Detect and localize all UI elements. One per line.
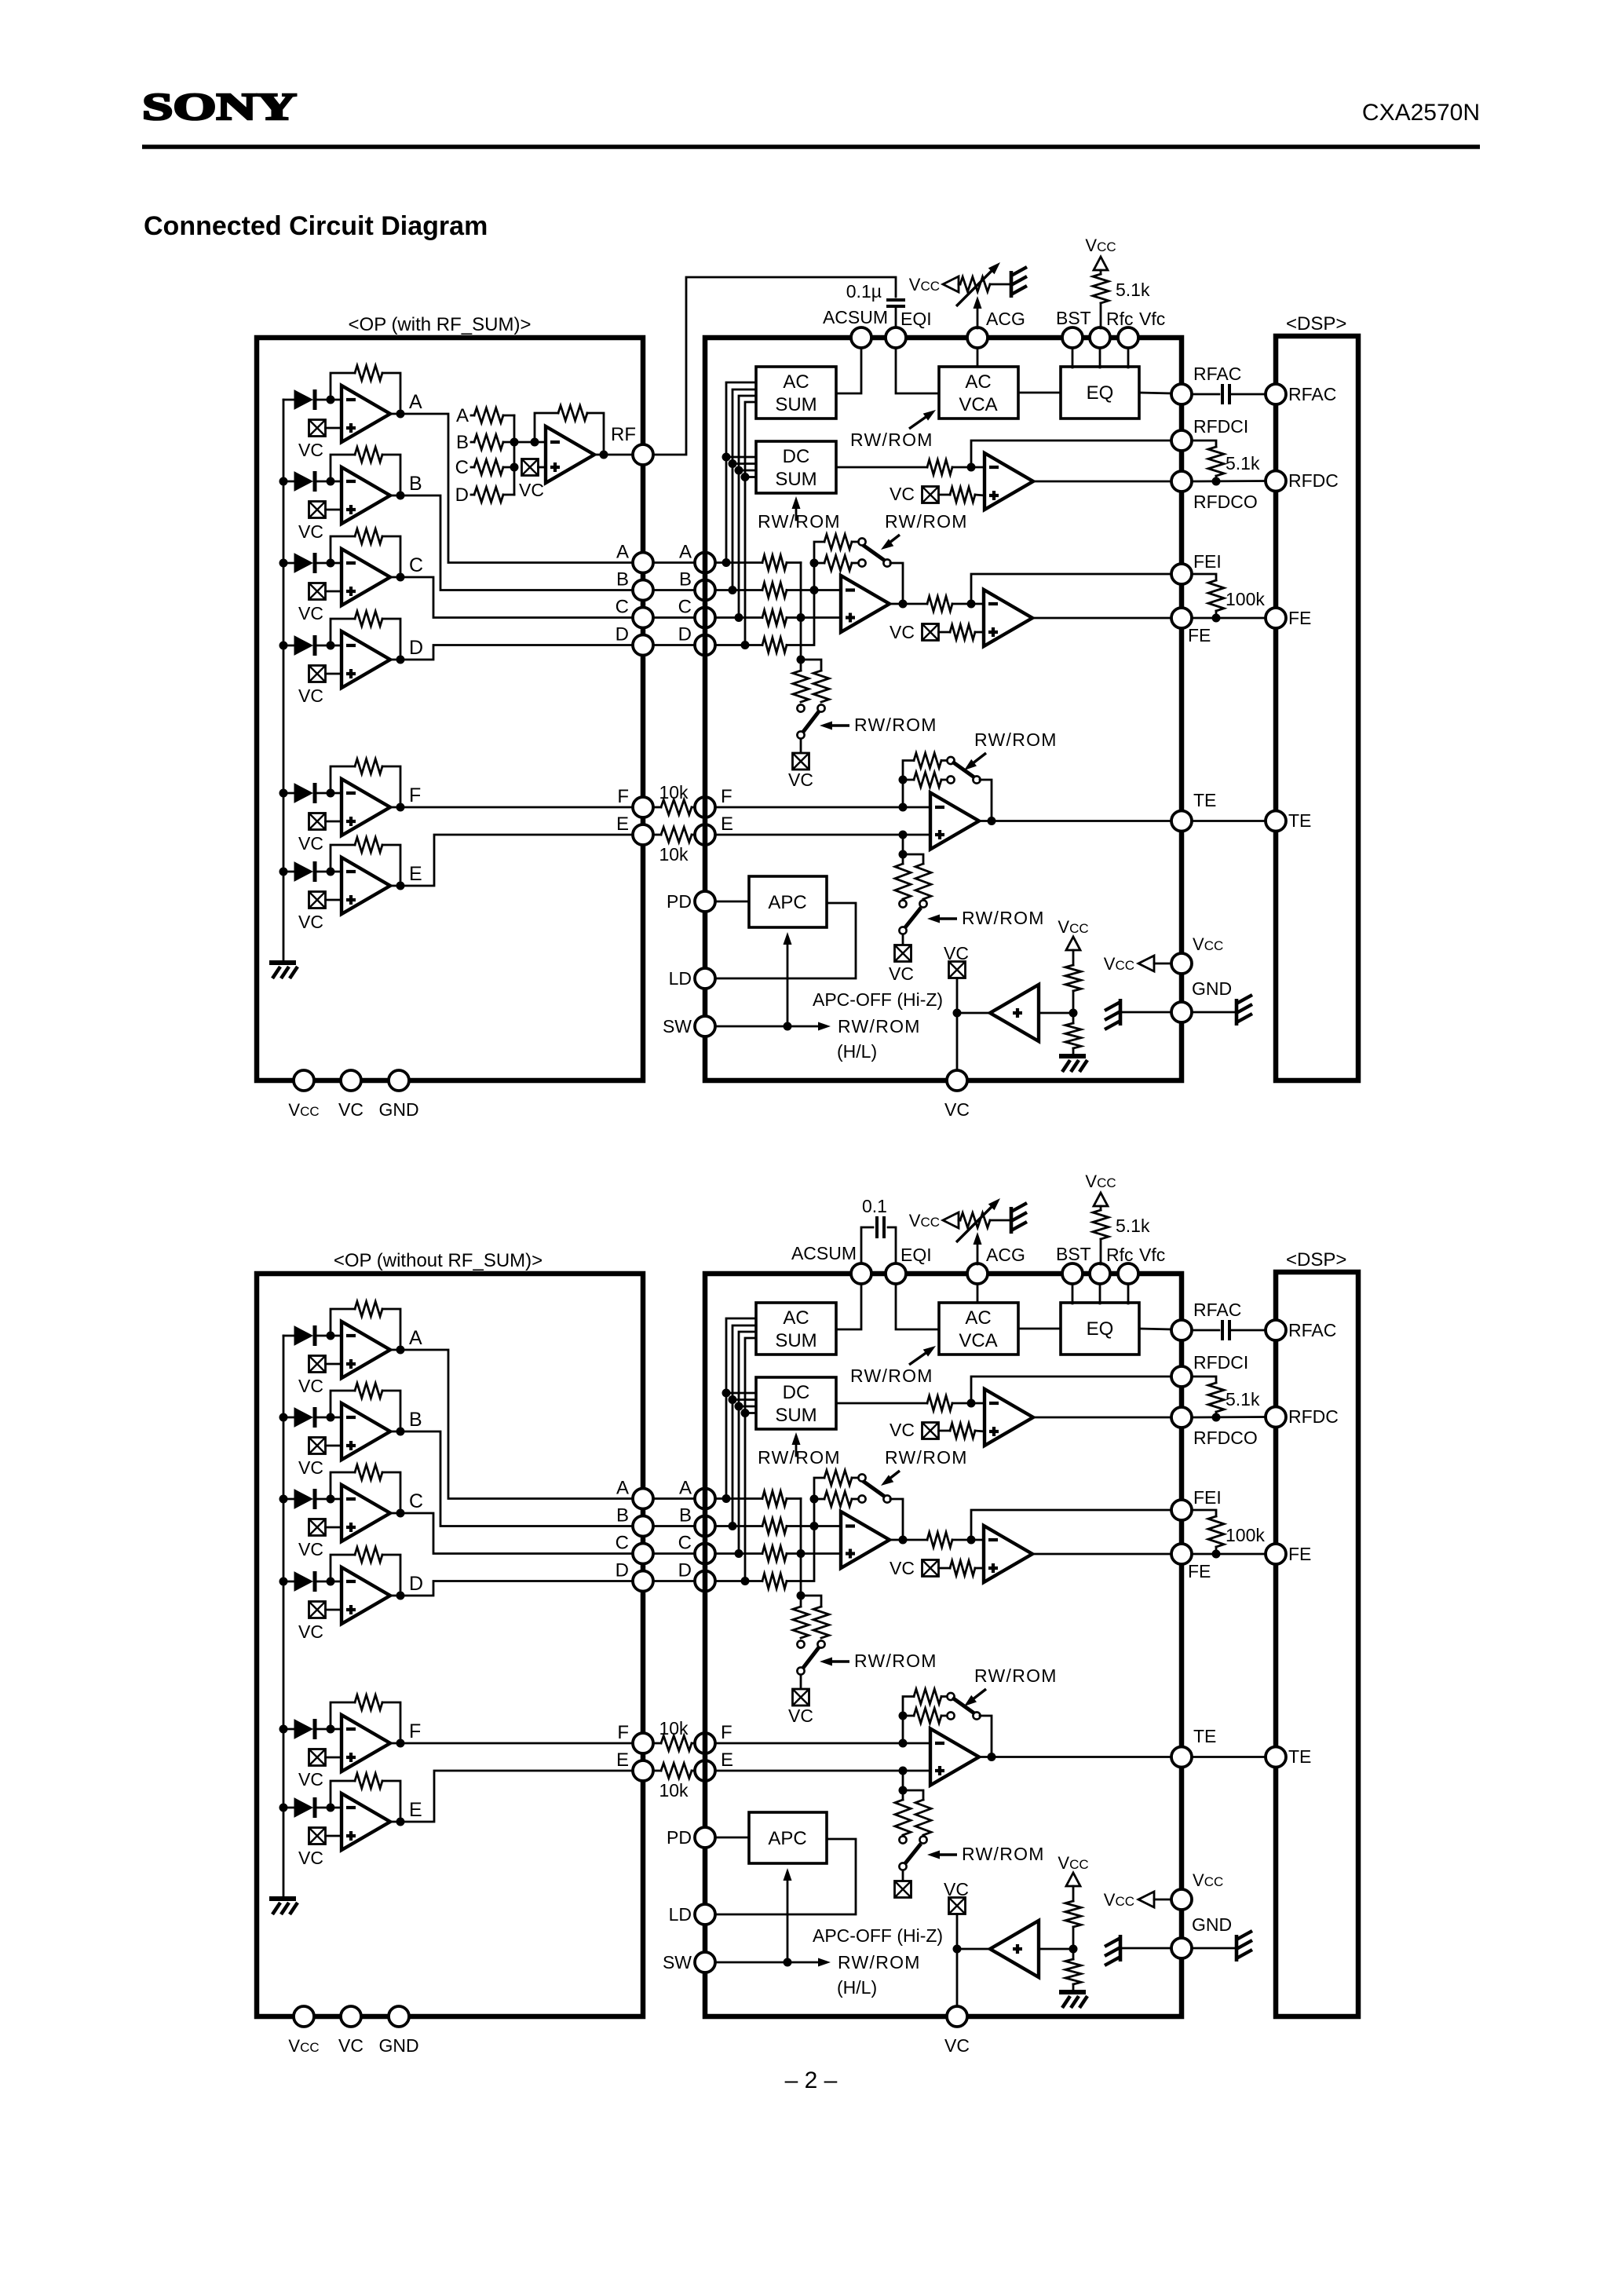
svg-text:RW/ROM: RW/ROM	[758, 511, 841, 532]
wire VC to UC plus input	[326, 590, 342, 593]
op-amp FE first stage	[841, 576, 890, 632]
UB plus input mark	[346, 1444, 356, 1447]
switch lever (FE bias RW/ROM)	[803, 1647, 819, 1668]
pin EQI (main block)	[886, 327, 906, 348]
pin FE (DSP)	[1266, 608, 1286, 628]
wire RF sum input C	[471, 466, 474, 469]
chassis ground (potentiometer)	[1010, 271, 1014, 298]
wire PDD cathode to op-amp UD inverting input	[315, 645, 342, 647]
photodiode PDA	[294, 390, 312, 409]
svg-text:C: C	[616, 597, 629, 618]
wire PDD anode	[283, 1581, 294, 1583]
wire ACSUM to AC SUM output	[836, 349, 861, 393]
svg-text:5.1k: 5.1k	[1226, 1389, 1260, 1409]
svg-text:Vfc: Vfc	[1139, 1245, 1165, 1265]
node FE plus input	[797, 1549, 806, 1558]
node UC inverting input	[327, 559, 335, 568]
op-amp TE	[930, 793, 979, 850]
svg-text:DC: DC	[783, 446, 810, 467]
block AC VCA	[939, 1303, 1018, 1355]
resistor TE feedback (ROM)	[914, 1689, 941, 1704]
wire UA feedback loop	[331, 373, 355, 400]
ground (OP photodiode bus)	[269, 960, 296, 965]
pin PD (main block)	[695, 891, 715, 912]
svg-text:– 2 –: – 2 –	[785, 2067, 838, 2093]
wire PDF cathode to op-amp UF inverting input	[315, 792, 342, 795]
OP block box (diagram 1)	[257, 338, 643, 1080]
wire UE feedback loop	[331, 1781, 355, 1808]
pin FE (main block)	[1171, 1544, 1192, 1564]
wire OP pin F to 10k resistor	[653, 1742, 661, 1745]
op-amp UC	[342, 1485, 390, 1541]
resistor RF sum C	[474, 460, 503, 475]
UA minus input mark	[346, 1334, 356, 1337]
node RF op-amp inverting input	[531, 438, 539, 447]
wire B pin to summing bundle	[732, 1325, 756, 1526]
node UD output	[396, 656, 405, 664]
op-amp RFDC	[985, 453, 1033, 510]
resistor FE bias (ROM)	[813, 671, 829, 702]
wire TE output to TE pin	[979, 820, 1171, 822]
svg-text:5.1k: 5.1k	[1116, 280, 1150, 300]
pin TE (DSP)	[1266, 811, 1286, 832]
svg-text:RW/ROM: RW/ROM	[962, 908, 1045, 928]
arrow RW/ROM to TE bias switch	[933, 1853, 957, 1855]
svg-text:RW/ROM: RW/ROM	[885, 511, 968, 532]
pin EQI (main block)	[886, 1263, 906, 1284]
node comparator output	[953, 1009, 962, 1018]
resistor FE bias (ROM)	[813, 1607, 829, 1638]
svg-text:C: C	[616, 1533, 629, 1554]
node UA output	[396, 1346, 405, 1355]
svg-text:ACG: ACG	[986, 309, 1025, 329]
node FE row	[1212, 1550, 1221, 1559]
chassis ground (GND left)	[1119, 1935, 1123, 1961]
svg-text:10k: 10k	[659, 1718, 689, 1738]
wire PDB cathode to op-amp UB inverting input	[315, 481, 342, 483]
svg-text:RFAC: RFAC	[1288, 384, 1336, 404]
wire RF summing node bus	[513, 415, 516, 495]
resistor 10k (F)	[661, 800, 692, 815]
photodiode PDF	[294, 1720, 312, 1738]
svg-text:TE: TE	[1193, 790, 1216, 810]
op-amp UE	[342, 1793, 390, 1850]
wire PDB cathode to op-amp UB inverting input	[315, 1417, 342, 1419]
node UE output	[396, 882, 405, 890]
pin RFAC (DSP)	[1266, 384, 1286, 404]
photodiode PDD	[294, 1572, 312, 1591]
RFDC op-amp minus mark	[989, 466, 999, 469]
wire RF sum B to summing node	[503, 441, 514, 444]
wire TE feedback switch to output	[980, 780, 992, 821]
switch lever (TE feedback RW/ROM)	[952, 762, 974, 777]
wire comparator input to divider	[1039, 1948, 1073, 1951]
svg-text:SW: SW	[663, 1952, 692, 1972]
wire C output to OP pin C	[390, 1513, 633, 1554]
comparator (laser monitor)	[990, 985, 1039, 1041]
pin RFAC (main block)	[1171, 1320, 1192, 1340]
svg-text:FE: FE	[1288, 1544, 1311, 1564]
UA minus input mark	[346, 398, 356, 401]
svg-text:FEI: FEI	[1193, 1487, 1222, 1508]
photodiode PDC	[294, 1490, 312, 1508]
wire RF sum input D	[471, 494, 474, 496]
node UD inverting input	[327, 642, 335, 650]
node FE bias split	[797, 656, 806, 664]
switch lever (TE bias RW/ROM)	[905, 1844, 921, 1863]
wire 5.1k to RFDC row	[1215, 476, 1218, 481]
node bundle B at pin row	[729, 586, 737, 594]
wire resistor to FE2 plus input	[975, 631, 984, 634]
wire FEI feedback to FEI pin	[971, 1510, 1171, 1540]
svg-text:RF: RF	[611, 424, 636, 445]
wire B row to minus node	[715, 1525, 762, 1527]
wire 10k to E pin	[692, 834, 695, 836]
pin ACSUM (main block)	[851, 327, 871, 348]
svg-text:RW/ROM: RW/ROM	[850, 1366, 933, 1386]
node TE plus input	[899, 1767, 908, 1775]
wire DC SUM output to resistor	[836, 466, 927, 469]
VC source box (UD non-inverting input)	[309, 666, 326, 682]
svg-text:LD: LD	[669, 968, 692, 989]
wire EQ to RFAC pin	[1139, 1329, 1171, 1329]
wire PDF anode	[283, 1728, 294, 1731]
block AC SUM	[756, 367, 836, 419]
svg-text:RW/ROM: RW/ROM	[838, 1952, 921, 1972]
wire GND right to chassis ground	[1192, 1947, 1237, 1950]
svg-text:RW/ROM: RW/ROM	[854, 1651, 937, 1671]
node bundle D DC branch	[741, 1409, 750, 1417]
wire PDE anode	[283, 1807, 294, 1809]
node UC output	[396, 1509, 405, 1518]
VC source box (UE non-inverting input)	[309, 1828, 326, 1844]
wire APC to LD pin	[715, 1839, 856, 1914]
pin E (OP block)	[633, 1760, 653, 1781]
wire bundle D to DC SUM	[745, 476, 756, 478]
wire RFDCI to 5.1k	[1192, 441, 1216, 447]
wire ACG to AC VCA control	[977, 349, 979, 367]
wire GND left to chassis ground	[1120, 1947, 1171, 1950]
pin TE (main block)	[1171, 1747, 1192, 1768]
node TE output	[988, 817, 996, 825]
wire AC VCA to EQ	[1018, 1328, 1061, 1330]
node UE inverting input	[327, 868, 335, 876]
wire VC box to VC pin	[956, 1914, 959, 2007]
UB minus input mark	[346, 480, 356, 483]
resistor DC SUM output	[927, 1396, 952, 1411]
node bundle A DC branch	[722, 1389, 731, 1398]
pin ACG (main block)	[967, 327, 988, 348]
svg-text:APC: APC	[768, 1828, 806, 1849]
U-RF plus input mark	[550, 466, 560, 469]
node PDC bus junction	[279, 1495, 288, 1504]
wire OP pin B to main pin B	[653, 589, 695, 591]
node bundle D at pin row	[741, 641, 750, 649]
wire VC to UF plus input	[326, 1757, 342, 1759]
chassis ground (GND right)	[1235, 1935, 1239, 1961]
wire RW feedback resistor to contact	[941, 1715, 947, 1717]
pin FE (DSP)	[1266, 1544, 1286, 1564]
VC source box (FE bias)	[793, 1689, 809, 1706]
resistor VC to RFDC plus input	[950, 1424, 975, 1439]
wire VC to UA plus input	[326, 427, 342, 430]
resistor FE input B	[762, 583, 787, 598]
resistor VC to FE2 plus input	[950, 1561, 975, 1576]
svg-text:EQ: EQ	[1087, 382, 1114, 404]
wire OP pin E to 10k resistor	[653, 834, 661, 836]
VC source box (RFDC op-amp)	[922, 487, 939, 503]
switch lever (FE feedback RW/ROM)	[863, 1481, 885, 1497]
wire RFDC feedback to RFDCI pin	[971, 441, 1171, 467]
pin RF (OP block)	[633, 444, 653, 465]
op-amp UF	[342, 779, 390, 835]
resistor UA feedback	[355, 1302, 382, 1317]
svg-text:Vfc: Vfc	[1139, 309, 1165, 329]
node UE inverting input	[327, 1804, 335, 1812]
svg-text:VC: VC	[298, 912, 323, 932]
photodiode PDC	[294, 554, 312, 572]
svg-text:VC: VC	[944, 943, 969, 963]
switch lever (TE bias RW/ROM)	[905, 908, 921, 927]
wire VC to UB plus input	[326, 509, 342, 511]
svg-text:B: B	[679, 1505, 692, 1526]
wire resistor A to plus bus corner	[787, 561, 801, 564]
pin A (OP block)	[633, 1489, 653, 1509]
wire feedback resistor to contact	[852, 541, 858, 543]
node FE2 minus input	[967, 1536, 976, 1545]
svg-text:SW: SW	[663, 1016, 692, 1036]
svg-text:100k: 100k	[1226, 589, 1265, 609]
svg-text:A: A	[456, 405, 469, 426]
svg-text:RFDC: RFDC	[1288, 1406, 1339, 1427]
wire TE to DSP TE	[1192, 820, 1266, 822]
resistor VC to RFDC plus input	[950, 488, 975, 503]
wire RF sum A to summing node	[503, 415, 514, 417]
wire B pin to summing bundle	[732, 389, 756, 590]
wire RFAC capacitor leads	[1192, 1329, 1219, 1332]
wire divider middle	[1072, 1927, 1075, 1959]
photodiode PDA	[294, 1326, 312, 1345]
photodiode PDB	[294, 472, 312, 491]
wire BST to EQ	[1072, 1285, 1074, 1303]
resistor divider upper	[1065, 965, 1081, 991]
wire A output to OP pin A	[390, 414, 633, 563]
resistor TE bias (ROM)	[915, 1800, 931, 1835]
OP block box (diagram 2)	[257, 1274, 643, 2016]
wire resistor to plus input	[975, 1431, 985, 1431]
node UA output	[396, 410, 405, 419]
switch contact (FE feedback ROM)	[858, 538, 865, 545]
VC source box (UC non-inverting input)	[309, 583, 326, 600]
block EQ	[1061, 1303, 1139, 1355]
node UE output	[396, 1818, 405, 1826]
wire RF sum D to summing node	[503, 494, 514, 496]
node UA inverting input	[327, 1332, 335, 1340]
wire OP pin D to main pin D	[653, 1580, 695, 1582]
node RF sum B	[510, 438, 519, 447]
svg-text:E: E	[616, 813, 629, 835]
wire VC to UD plus input	[326, 673, 342, 675]
wire PDD cathode to op-amp UD inverting input	[315, 1581, 342, 1583]
wire UF feedback loop	[331, 766, 355, 793]
wire PDA anode	[283, 399, 294, 401]
TE plus mark	[935, 1769, 944, 1772]
resistor TE bias (ROM)	[915, 864, 931, 899]
pin C (main block)	[695, 1544, 715, 1564]
block APC	[749, 876, 827, 927]
wire 10k to F pin	[692, 806, 695, 809]
wire potentiometer right to chassis ground	[990, 283, 1011, 286]
svg-text:BST: BST	[1056, 308, 1091, 328]
svg-text:C: C	[409, 1490, 423, 1512]
node UB output	[396, 492, 405, 500]
arrow RW/ROM to TE bias switch	[933, 917, 957, 919]
VC source box (UC non-inverting input)	[309, 1519, 326, 1536]
switch contact (TE bias left)	[899, 1836, 906, 1843]
resistor TE bias (RW)	[895, 864, 911, 899]
resistor FE input A	[762, 1491, 787, 1506]
node RFDC op-amp inverting input	[967, 1399, 976, 1408]
wire UD feedback to output	[382, 619, 400, 660]
capacitor 0.1µ (RF to EQI)	[886, 298, 905, 302]
svg-text:SUM: SUM	[775, 1330, 816, 1351]
svg-text:F: F	[409, 1720, 421, 1742]
wire UE feedback to output	[382, 1781, 400, 1822]
resistor DC SUM output	[927, 460, 952, 475]
wire PDD anode	[283, 645, 294, 647]
wire FE to DSP FE	[1192, 1553, 1266, 1556]
node FE bias split	[797, 1592, 806, 1600]
wire C output to OP pin C	[390, 577, 633, 618]
wire UC feedback to output	[382, 1472, 400, 1513]
potentiometer ACG resistor	[960, 1213, 990, 1228]
UD minus input mark	[346, 1580, 356, 1583]
arrow RW/ROM to DC SUM	[795, 503, 798, 520]
wire OP pin A to main pin A	[653, 1497, 695, 1500]
switch contact (FE bias left)	[797, 704, 804, 711]
wire RFDC op-amp output to RFDCO pin	[1033, 1417, 1171, 1419]
svg-text:D: D	[678, 1560, 692, 1581]
svg-text:<OP (with RF_SUM)>: <OP (with RF_SUM)>	[349, 314, 532, 335]
switch contact (FE bias right)	[817, 1640, 824, 1647]
block AC VCA	[939, 367, 1018, 419]
UD minus input mark	[346, 644, 356, 647]
pin A (OP block)	[633, 553, 653, 573]
resistor FE bias (RW)	[793, 1607, 809, 1638]
switch contact (TE feedback ROM)	[947, 757, 954, 764]
wire FE1 output to interstage resistor	[890, 603, 927, 605]
wire RFDC op-amp output to RFDCO pin	[1033, 481, 1171, 483]
VC source box (UE non-inverting input)	[309, 892, 326, 909]
resistor FE input B	[762, 1519, 787, 1534]
pin A (main block)	[695, 553, 715, 573]
VC source box (UB non-inverting input)	[309, 502, 326, 518]
switch contact (FE bias left)	[797, 1640, 804, 1647]
pin RFDCI (main block)	[1171, 1366, 1192, 1387]
svg-text:GND: GND	[378, 2035, 418, 2056]
node bundle C DC branch	[735, 466, 743, 475]
resistor FE feedback (RW)	[824, 1492, 852, 1507]
svg-text:D: D	[616, 624, 629, 645]
svg-text:(H/L): (H/L)	[837, 1041, 877, 1062]
chassis ground (GND left)	[1119, 999, 1123, 1026]
svg-text:VC: VC	[298, 833, 323, 854]
svg-text:E: E	[616, 1749, 629, 1771]
FE2 plus mark	[988, 1567, 998, 1570]
wire C pin to summing bundle	[739, 396, 756, 618]
UF minus input mark	[346, 1727, 356, 1731]
svg-text:VC: VC	[298, 686, 323, 706]
VC source box (UF non-inverting input)	[309, 1749, 326, 1766]
wire SW branch to APC control	[787, 938, 789, 1026]
svg-text:ACG: ACG	[986, 1245, 1025, 1265]
svg-text:B: B	[456, 432, 469, 453]
pin Rfc (main block)	[1090, 1263, 1110, 1284]
VC source box (UA non-inverting input)	[309, 420, 326, 437]
wire PDF anode	[283, 792, 294, 795]
arrow RW/ROM to FE bias switch	[826, 1660, 849, 1662]
block EQ	[1061, 367, 1139, 419]
wire Vcc to 5.1k	[1100, 1206, 1102, 1210]
node PDE bus junction	[279, 1804, 288, 1812]
wire comparator input to divider	[1039, 1012, 1073, 1015]
node PDF bus junction	[279, 1725, 288, 1734]
svg-text:B: B	[409, 473, 422, 495]
svg-text:RFAC: RFAC	[1288, 1320, 1336, 1340]
resistor UC feedback	[355, 1465, 382, 1480]
svg-text:RFDCI: RFDCI	[1193, 416, 1248, 437]
node UA inverting input	[327, 396, 335, 404]
resistor 5.1k (Rfc pull-up)	[1093, 274, 1109, 303]
pin E (OP block)	[633, 824, 653, 845]
UB minus input mark	[346, 1416, 356, 1419]
node bundle B DC branch	[729, 1395, 737, 1404]
wire PDC anode	[283, 562, 294, 565]
FE1 plus mark	[846, 616, 855, 619]
svg-text:F: F	[721, 1722, 732, 1743]
wire bias branch left	[800, 660, 802, 671]
svg-text:E: E	[409, 1799, 422, 1821]
node UF output	[396, 1739, 405, 1748]
UA plus input mark	[346, 426, 356, 430]
pin BST (main block)	[1062, 1263, 1083, 1284]
wire FEI to 100k	[1192, 574, 1216, 580]
node TE lower feedback tap	[899, 1712, 908, 1720]
node UC inverting input	[327, 1495, 335, 1504]
wire Vcc feed to pin	[1154, 1899, 1171, 1901]
svg-text:RW/ROM: RW/ROM	[974, 729, 1058, 750]
wire ACG wiper arrow	[977, 1238, 979, 1264]
svg-text:F: F	[617, 786, 629, 807]
wire UB feedback to output	[382, 455, 400, 495]
wire D pin to summing bundle	[745, 1338, 756, 1581]
pin GND (main block)	[1171, 1938, 1192, 1958]
svg-text:VC: VC	[298, 440, 323, 460]
svg-text:VC: VC	[298, 521, 323, 542]
wire potentiometer left	[959, 283, 960, 286]
wire A pin to summing bundle	[726, 382, 756, 563]
node bundle C DC branch	[735, 1402, 743, 1411]
UE plus input mark	[346, 898, 356, 901]
node bundle C at pin row	[735, 613, 743, 622]
svg-text:RFDCO: RFDCO	[1193, 1428, 1258, 1448]
switch pivot (TE bias)	[899, 1863, 906, 1870]
wire resistor B to FE minus input	[787, 589, 841, 591]
wire resistor to RFDC op-amp inverting input	[952, 466, 985, 469]
pin VC (main block bottom)	[947, 2006, 967, 2027]
wire VC to UD plus input	[326, 1609, 342, 1611]
photodiode PDE	[294, 1798, 312, 1817]
